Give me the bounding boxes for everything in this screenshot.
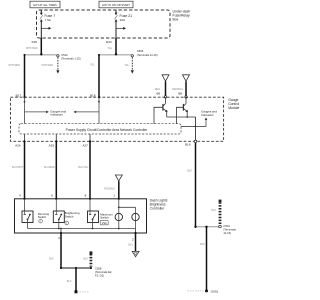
svg-text:A26: A26 bbox=[15, 143, 21, 147]
wire pin 2 to ground bbox=[135, 233, 137, 251]
svg-text:B16: B16 bbox=[185, 142, 191, 146]
svg-text:Indicators: Indicators bbox=[201, 113, 214, 117]
svg-text:BLK: BLK bbox=[83, 258, 88, 261]
wire RED/BLU bbox=[185, 81, 187, 95]
svg-text:Indicators: Indicators bbox=[50, 113, 63, 117]
fuse F21 branch arrow bbox=[116, 27, 126, 30]
svg-text:A27: A27 bbox=[82, 143, 88, 147]
svg-text:WHT/RED: WHT/RED bbox=[26, 47, 38, 50]
arrow to gauges and indicators (right) bbox=[196, 117, 208, 126]
header box HOT AT ALL TIMES bbox=[30, 1, 60, 8]
wire A26 to pin 4 bbox=[24, 141, 26, 198]
svg-text:B18: B18 bbox=[90, 93, 96, 97]
svg-text:G501: G501 bbox=[211, 289, 219, 293]
svg-text:HOT IN ON OR START: HOT IN ON OR START bbox=[102, 3, 130, 7]
svg-text:E34: E34 bbox=[106, 40, 112, 44]
svg-text:WHT/RED: WHT/RED bbox=[42, 64, 54, 67]
svg-text:BLK: BLK bbox=[200, 243, 205, 246]
junction dot X26 bbox=[40, 53, 42, 55]
lamp L2 bbox=[132, 213, 139, 220]
ground G (triangle) bbox=[132, 251, 139, 256]
svg-text:C508: C508 bbox=[95, 267, 102, 271]
svg-text:YEL: YEL bbox=[107, 47, 112, 50]
dash lights brightness controller box bbox=[15, 199, 147, 233]
switch S3 maximum bbox=[88, 199, 99, 229]
junction dot E34 bbox=[115, 53, 117, 55]
wire pin 3 down bbox=[60, 233, 62, 268]
svg-text:(Terminals 1-15): (Terminals 1-15) bbox=[61, 57, 81, 61]
svg-text:Switch: Switch bbox=[65, 214, 74, 218]
lamp branch rail bbox=[119, 206, 136, 208]
svg-text:C510: C510 bbox=[223, 224, 230, 228]
svg-text:10A: 10A bbox=[120, 18, 126, 22]
pin B8 terminal circle bbox=[185, 96, 187, 98]
svg-text:A25: A25 bbox=[49, 143, 55, 147]
switch S2 position mark bbox=[65, 221, 69, 225]
ground G502 terminal bbox=[75, 290, 90, 293]
transistor Q1 bbox=[163, 97, 167, 117]
wire E34 to junction bbox=[115, 38, 117, 55]
svg-text:BLK/YEL: BLK/YEL bbox=[78, 166, 89, 169]
connector C510 drop arrow bbox=[56, 55, 59, 74]
svg-text:8: 8 bbox=[85, 194, 87, 198]
pin B6 terminal circle bbox=[164, 96, 166, 98]
transistor Q2 base wire bbox=[177, 107, 184, 123]
pin A26 dot and label bbox=[23, 140, 25, 142]
connector C508 stub (hatched) bbox=[90, 251, 93, 266]
pin A27 dot and label bbox=[89, 140, 91, 142]
ground rail inside controller bbox=[28, 228, 136, 230]
switch S1 dimming bbox=[22, 199, 33, 229]
svg-text:Power Supply Circuit/Controlle: Power Supply Circuit/Controller Area Net… bbox=[66, 128, 149, 132]
svg-text:7.5A: 7.5A bbox=[45, 18, 52, 22]
connector rail right (gray) bbox=[99, 54, 132, 56]
stub A26 through module edge bbox=[24, 134, 26, 141]
svg-text:Controller: Controller bbox=[150, 206, 166, 210]
fuse F7 branch arrow bbox=[41, 27, 51, 30]
svg-text:Module: Module bbox=[228, 106, 239, 110]
internal wire from B18 bbox=[98, 97, 100, 124]
wire B16 BLK to joint bbox=[195, 143, 197, 227]
svg-text:YEL: YEL bbox=[90, 64, 95, 67]
svg-text:(Terminals E2,: (Terminals E2, bbox=[95, 270, 112, 274]
svg-text:(Terminals: (Terminals bbox=[223, 227, 236, 231]
svg-text:2: 2 bbox=[132, 237, 134, 241]
arrow to gauges and indicators (right side from B18) bbox=[74, 111, 100, 114]
ground wire G501 bbox=[206, 227, 208, 291]
wire to pin 1 bbox=[118, 181, 120, 199]
from-arrow triangle RED/BLU wire bbox=[183, 75, 190, 81]
arrow to gauges and indicators (left) bbox=[25, 111, 49, 114]
svg-text:RED/BLK: RED/BLK bbox=[104, 188, 115, 191]
svg-text:B6: B6 bbox=[157, 91, 161, 95]
svg-text:C506: C506 bbox=[137, 49, 144, 53]
svg-text:11-15): 11-15) bbox=[223, 231, 231, 235]
svg-text:Box: Box bbox=[173, 17, 179, 21]
lamp L2 wire bbox=[135, 207, 137, 228]
svg-text:Switch: Switch bbox=[38, 215, 47, 219]
from-arrow triangle RED wire bbox=[162, 75, 169, 81]
svg-text:HOT AT ALL TIMES: HOT AT ALL TIMES bbox=[33, 3, 57, 7]
svg-text:B8: B8 bbox=[178, 91, 182, 95]
pin A25 dot and label bbox=[55, 140, 57, 142]
svg-text:BLK: BLK bbox=[187, 169, 192, 172]
svg-text:X26: X26 bbox=[31, 40, 37, 44]
svg-text:BLU/RED: BLU/RED bbox=[44, 166, 55, 169]
wire B18 bbox=[98, 55, 100, 97]
svg-text:6: 6 bbox=[51, 194, 53, 198]
node B16 vertical bbox=[195, 117, 197, 140]
stub A25 bbox=[55, 134, 57, 141]
svg-text:BLU/WHT: BLU/WHT bbox=[12, 166, 24, 169]
svg-text:YEL: YEL bbox=[124, 64, 129, 67]
svg-text:B17: B17 bbox=[16, 93, 22, 97]
lamp L1 wire bbox=[118, 199, 120, 229]
stub A27 bbox=[89, 134, 91, 141]
under-dash fuse/relay box (dashed) bbox=[37, 10, 171, 38]
transistor Q1 base wire bbox=[154, 107, 163, 123]
emitter rail to node B16 bbox=[167, 116, 196, 118]
svg-text:3: 3 bbox=[58, 236, 60, 240]
lamp L1 bbox=[115, 213, 122, 220]
svg-text:VSA: VSA bbox=[102, 222, 107, 225]
wire RED bbox=[165, 81, 167, 95]
power supply circuit/CAN controller box (dashed) bbox=[19, 124, 181, 134]
svg-text:Switch: Switch bbox=[100, 216, 109, 220]
svg-text:F2, D2): F2, D2) bbox=[95, 274, 104, 278]
connector rail left (gray) bbox=[25, 54, 58, 56]
svg-text:1: 1 bbox=[113, 194, 115, 198]
ground G501 terminal bbox=[188, 289, 219, 293]
svg-text:BLK: BLK bbox=[67, 280, 72, 283]
pin 2 exit bbox=[135, 229, 137, 234]
pin B18 junction dot bbox=[98, 96, 100, 98]
internal wire from B17 bbox=[24, 97, 26, 124]
switch S1 position mark bbox=[39, 219, 43, 223]
fuse F21 bbox=[115, 10, 117, 38]
svg-text:BLK: BLK bbox=[211, 209, 216, 212]
wire X26 to junction bbox=[40, 38, 42, 55]
joint rail bottom right bbox=[196, 226, 221, 228]
controller to node B16 link bbox=[181, 125, 196, 127]
wire A27 to pin 8 bbox=[89, 141, 91, 198]
from-arrow triangle RED/BLK wire bbox=[115, 175, 122, 181]
svg-text:C510: C510 bbox=[61, 53, 68, 57]
svg-text:(Terminals 11-16): (Terminals 11-16) bbox=[137, 53, 158, 57]
switch S2 brightening bbox=[53, 199, 64, 229]
wire B17 bbox=[24, 55, 26, 97]
header box HOT IN ON OR START bbox=[99, 1, 133, 8]
ground wire G502 bbox=[75, 268, 77, 291]
pin 3 exit bbox=[60, 229, 62, 234]
connector C510b stub (hatched) bbox=[219, 200, 222, 228]
switch S3 VSA tag bbox=[100, 220, 108, 225]
pin B17 junction dot bbox=[23, 96, 25, 98]
svg-text:BLK: BLK bbox=[49, 258, 54, 261]
wire A25 to pin 6 bbox=[55, 141, 57, 198]
pin B16 terminal circle and label bbox=[194, 140, 197, 143]
svg-text:BLU: BLU bbox=[128, 243, 133, 246]
gauge control module box (dashed) bbox=[11, 97, 224, 141]
svg-text:4: 4 bbox=[19, 194, 21, 198]
transistor Q2 bbox=[183, 97, 187, 117]
fuse F7 bbox=[40, 10, 42, 38]
connector C506 drop arrow bbox=[131, 55, 134, 74]
node B18 corner dot bbox=[98, 54, 100, 56]
node B17 corner dot bbox=[24, 54, 26, 56]
joint rail bottom left bbox=[61, 267, 91, 269]
svg-text:WHT/RED: WHT/RED bbox=[8, 64, 20, 67]
